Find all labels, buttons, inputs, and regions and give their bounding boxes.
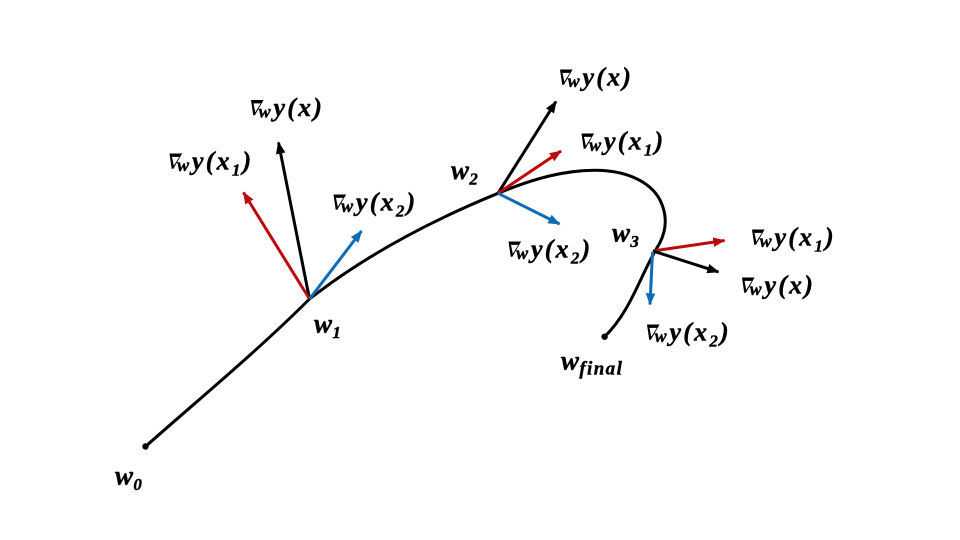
- label w3: [612, 218, 639, 252]
- svg-text:y(x1): y(x1): [772, 222, 836, 255]
- svg-text:w: w: [568, 71, 581, 91]
- point wfinal: [601, 334, 607, 340]
- svg-text:y(x1): y(x1): [189, 146, 253, 179]
- curve: descent path w0 to wfinal: [146, 170, 666, 446]
- svg-text:w1: w1: [314, 309, 341, 343]
- svg-text:w3: w3: [612, 218, 639, 252]
- label grad-w y(x1) right of w2 arrow: [582, 126, 666, 159]
- svg-text:w: w: [760, 231, 773, 251]
- label grad-w y(x) above w2: [560, 62, 633, 91]
- arrow blue at w3: [650, 252, 653, 305]
- svg-text:w: w: [259, 102, 272, 122]
- svg-text:w: w: [341, 196, 354, 216]
- arrow red at w3: [653, 241, 725, 252]
- svg-text:w: w: [177, 155, 190, 175]
- label grad-w y(x2) right of w1: [334, 187, 418, 220]
- svg-text:y(x): y(x): [271, 93, 325, 122]
- label grad-w y(x2) below w2: [509, 234, 593, 267]
- svg-text:y(x2): y(x2): [528, 234, 592, 267]
- svg-text:w: w: [750, 279, 763, 299]
- svg-text:w0: w0: [115, 461, 142, 495]
- svg-text:w: w: [589, 135, 602, 155]
- arrow red at w1: [244, 193, 310, 300]
- svg-text:w2: w2: [451, 155, 478, 189]
- arrow black at w2: [498, 102, 556, 194]
- label grad-w y(x) above w1: [251, 93, 324, 122]
- svg-text:y(x1): y(x1): [601, 126, 665, 159]
- svg-text:w: w: [516, 243, 529, 263]
- label grad-w y(x1) left of w1: [170, 146, 254, 179]
- label grad-w y(x) below-right of w3: [742, 270, 815, 299]
- label w1: [314, 309, 341, 343]
- label w0: [115, 461, 142, 495]
- svg-text:y(x): y(x): [762, 270, 816, 299]
- label grad-w y(x1) right of w3: [752, 222, 836, 255]
- svg-text:y(x): y(x): [580, 62, 634, 91]
- arrow red at w2: [498, 151, 561, 193]
- arrow black at w1: [279, 143, 310, 300]
- svg-text:w: w: [655, 326, 668, 346]
- label grad-w y(x2) below w3: [647, 317, 731, 350]
- point w0: [142, 443, 148, 449]
- svg-text:wfinal: wfinal: [561, 346, 623, 380]
- label wfinal: [561, 346, 623, 380]
- arrow blue at w1: [310, 231, 362, 299]
- svg-text:y(x2): y(x2): [353, 187, 417, 220]
- svg-text:y(x2): y(x2): [667, 317, 731, 350]
- label w2: [451, 155, 478, 189]
- arrow blue at w2: [498, 193, 560, 224]
- arrow black at w3: [653, 251, 719, 272]
